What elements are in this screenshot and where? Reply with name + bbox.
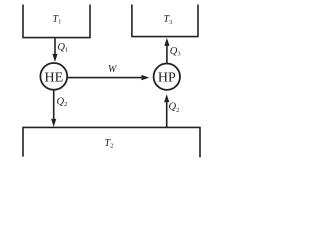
svg-text:HP: HP — [158, 70, 176, 85]
svg-text:HE: HE — [44, 70, 63, 85]
